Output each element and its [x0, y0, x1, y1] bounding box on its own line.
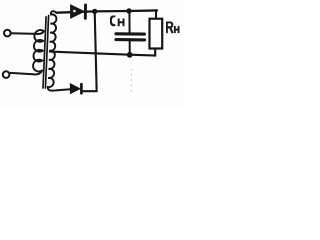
capacitor CH top plate — [116, 32, 144, 35]
diode VD1 (top) — [71, 5, 84, 18]
capacitor CH bottom plate — [116, 38, 145, 41]
label RH — [167, 22, 179, 33]
faint print-through artifact — [130, 69, 133, 95]
label CH — [111, 16, 124, 26]
diode VD1 cathode bar — [84, 5, 87, 18]
wire: cathode bus vertical — [83, 12, 97, 91]
capacitor CH top lead — [128, 11, 130, 33]
capacitor CH bottom lead — [129, 41, 131, 55]
secondary winding — [48, 11, 59, 90]
node: junction dot rail/cap — [126, 8, 131, 13]
label C (of Сн) — [111, 16, 115, 25]
label R (of Rн) — [167, 22, 173, 33]
bottom rail / center tap — [50, 48, 155, 56]
scan white notch in VD1 — [73, 10, 76, 13]
node: junction dot cap bottom — [127, 52, 133, 58]
node: junction dot rail/bus — [92, 9, 97, 14]
label н (of Rн) — [175, 26, 179, 33]
label н (of Сн) — [119, 19, 124, 27]
primary winding — [33, 30, 44, 71]
diode VD2 cathode bar — [80, 84, 83, 93]
wire T2 to primary — [11, 71, 42, 75]
terminal T1 — [4, 30, 11, 37]
terminal T2 — [3, 71, 10, 78]
resistor RH body — [150, 19, 163, 49]
resistor RH top lead — [155, 10, 157, 17]
core line 2 — [45, 16, 48, 89]
core line 1 — [43, 17, 46, 88]
transformer T1 (skewed group) — [32, 11, 59, 90]
wire secondary bottom to diode VD2 — [56, 89, 70, 90]
wire T1 to primary — [11, 31, 44, 34]
top rail — [57, 10, 158, 12]
diode VD2 (bottom) — [71, 84, 80, 93]
